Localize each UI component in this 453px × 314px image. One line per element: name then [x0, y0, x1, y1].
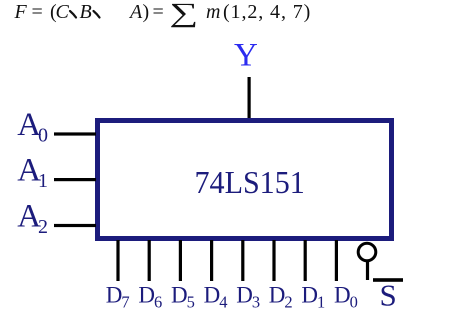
wire D3 pin [241, 240, 244, 281]
formula F = (C、B、A) = Σ m(1,2,4,7) [14, 0, 312, 28]
svg-text:F: F [14, 1, 28, 23]
wire D7 pin [116, 240, 119, 281]
svg-text:D7: D7 [106, 283, 130, 312]
svg-text:B: B [80, 1, 92, 23]
svg-text:D6: D6 [138, 283, 162, 312]
svg-text:): ) [143, 1, 150, 23]
svg-text:D2: D2 [269, 283, 293, 312]
svg-text:(1,2, 4, 7): (1,2, 4, 7) [223, 1, 311, 23]
svg-text:D4: D4 [204, 283, 228, 312]
wire D4 pin [210, 240, 213, 281]
svg-text:A: A [128, 1, 143, 23]
svg-text:S: S [380, 278, 397, 313]
wire Y (output, top) [248, 77, 251, 121]
ideographic comma 1 [70, 11, 76, 18]
wire D0 pin [335, 240, 338, 281]
ideographic comma 2 [94, 11, 100, 18]
wire A1 [54, 178, 96, 181]
wire D2 pin [272, 240, 275, 281]
wire D5 pin [179, 240, 182, 281]
wire D6 pin [148, 240, 151, 281]
svg-text:=: = [153, 1, 164, 23]
wire A2 [54, 224, 96, 227]
wire S stub [366, 261, 369, 280]
inverter bubble on S input [358, 243, 376, 261]
svg-text:C: C [56, 1, 70, 23]
wire D1 pin [304, 240, 307, 281]
wire A0 [54, 132, 96, 135]
svg-text:A2: A2 [17, 198, 48, 238]
svg-text:D1: D1 [301, 283, 325, 312]
svg-text:A0: A0 [17, 107, 48, 147]
svg-text:74LS151: 74LS151 [195, 164, 305, 200]
svg-text:D3: D3 [236, 283, 260, 312]
svg-text:∑: ∑ [170, 0, 199, 28]
op-amp/IC body 74LS151 [98, 121, 392, 239]
svg-text:D5: D5 [171, 283, 195, 312]
svg-text:Y: Y [234, 38, 258, 74]
svg-text:=: = [32, 1, 43, 23]
svg-text:D0: D0 [334, 283, 358, 312]
svg-text:A1: A1 [17, 152, 48, 192]
svg-text:m: m [206, 1, 220, 23]
S overline bar [373, 278, 403, 282]
